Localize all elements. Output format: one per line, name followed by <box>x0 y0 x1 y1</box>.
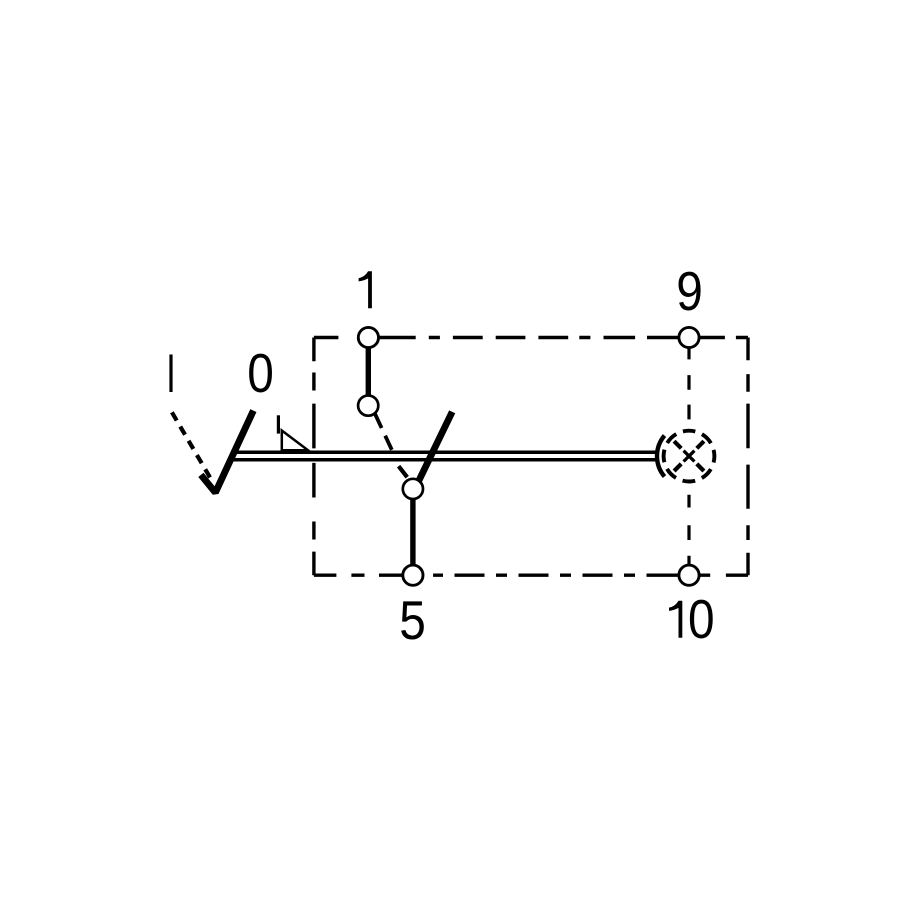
terminal pin 9 <box>679 327 699 347</box>
terminal pin 10 <box>679 565 699 585</box>
pin label 10 digit 1 <box>669 601 682 638</box>
enclosure dashed box top edge <box>314 336 748 339</box>
lamp L1 reflector arc <box>657 436 664 477</box>
enclosure dashed box right edge <box>746 338 749 576</box>
wire dashed lamp to pin10 <box>687 495 690 565</box>
pin label 9 <box>676 260 703 322</box>
lever 1 (manual actuator, solid position) <box>201 411 254 493</box>
lever 2 (switch blade) <box>417 412 453 486</box>
label I (position marker left) <box>169 355 172 393</box>
lamp L1 center x <box>684 451 695 462</box>
contact A circle <box>358 396 378 416</box>
enclosure dashed box left edge <box>312 338 315 576</box>
wire dashed pin9 to lamp <box>687 347 690 419</box>
enclosure dashed box bottom edge <box>314 574 748 577</box>
detent tick I <box>277 415 280 433</box>
terminal pin 1 <box>358 327 378 347</box>
svg-text:0: 0 <box>688 588 715 650</box>
wire stub pin1 to contact A <box>366 347 371 397</box>
svg-text:9: 9 <box>676 260 703 322</box>
detent triangle <box>282 431 308 451</box>
lever 1 alternate position (dashed) <box>172 412 212 480</box>
svg-text:5: 5 <box>399 589 426 651</box>
svg-text:0: 0 <box>247 342 274 404</box>
contact B slash <box>399 466 408 477</box>
terminal pin 5 <box>403 565 423 585</box>
pin label 5 <box>399 589 426 651</box>
wire stub contact B to pin5 <box>410 498 415 566</box>
pin label 10 digit 0 <box>688 588 715 650</box>
contact B circle <box>403 479 423 499</box>
lamp L1 cross arms <box>674 441 704 471</box>
label 0 (position marker) <box>247 342 274 404</box>
lamp L1 dashed circle <box>664 431 715 482</box>
actuator bar top line (wire) <box>237 451 658 455</box>
contact A dashed link to bar <box>374 413 391 450</box>
pin label 1 <box>359 271 372 308</box>
actuator bar bottom line (wire) <box>232 458 658 462</box>
